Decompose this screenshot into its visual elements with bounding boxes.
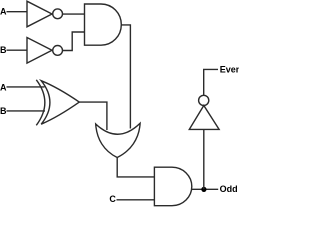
inverter U1 triangle — [27, 1, 52, 27]
AND gate U3 — [85, 4, 122, 45]
svg-text:B: B — [0, 106, 7, 116]
wire U4 output down to OR U5 left input — [79, 102, 107, 130]
wire U1 output to AND U3 top input — [63, 13, 85, 15]
junction dot (Odd node) — [201, 187, 206, 192]
AND gate U6 — [154, 167, 191, 206]
wire junction up to inverter U7 input — [203, 129, 205, 189]
wire A to inverter U1 — [7, 11, 28, 13]
inverter U2 bubble — [53, 46, 63, 56]
svg-text:A: A — [0, 83, 7, 93]
XOR gate U4 body — [41, 81, 79, 125]
svg-text:A: A — [0, 6, 7, 16]
inverter U7 bubble — [199, 95, 209, 105]
inverter U1 bubble — [53, 9, 63, 19]
wire U6 output to Odd label — [192, 188, 218, 190]
wire A to XOR U4 — [7, 86, 45, 88]
wire U5 output to AND U6 top input — [117, 158, 154, 177]
OR gate U5 (pointing down) — [96, 123, 140, 157]
inverter U7 triangle (pointing up) — [189, 106, 219, 130]
svg-text:C: C — [109, 194, 116, 204]
XOR gate U4 back arc — [36, 80, 45, 126]
wire U2 output to AND U3 bottom input — [63, 32, 85, 51]
wire B to XOR U4 — [7, 110, 46, 112]
inverter U2 triangle — [27, 38, 52, 64]
svg-text:B: B — [0, 45, 7, 55]
svg-text:Odd: Odd — [220, 184, 238, 194]
svg-text:Even: Even — [220, 64, 239, 74]
wire U7 output to Even label — [204, 69, 218, 95]
wire U3 output down to OR U5 right input — [121, 25, 130, 129]
wire C to AND U6 bottom input — [117, 199, 155, 201]
wire B to inverter U2 — [7, 49, 28, 51]
